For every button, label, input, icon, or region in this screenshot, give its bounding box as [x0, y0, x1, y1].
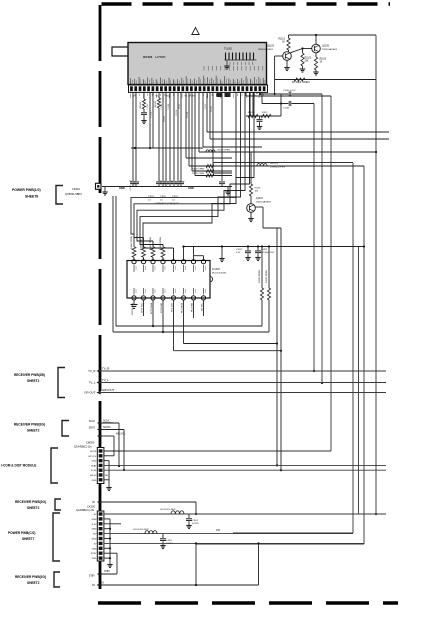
svg-text:R1101: R1101 — [278, 39, 285, 41]
svg-text:STBY: STBY — [89, 575, 96, 578]
svg-text:R1417 OPEN: R1417 OPEN — [150, 236, 152, 250]
svg-text:HP_VOL: HP_VOL — [116, 433, 126, 436]
svg-text:C1105: C1105 — [283, 108, 290, 110]
svg-text:0.01U: 0.01U — [290, 90, 296, 92]
svg-text:R1418 OPEN: R1418 OPEN — [160, 236, 162, 250]
svg-text:SCLK: SCLK — [89, 420, 96, 423]
svg-text:C1102: C1102 — [147, 104, 149, 109]
svg-text:RECEIVER PWB(2B): RECEIVER PWB(2B) — [14, 373, 45, 377]
svg-text:SHEET2: SHEET2 — [27, 379, 40, 383]
svg-text:GRVOUT: GRVOUT — [102, 388, 115, 392]
svg-text:POWER PWB(C/2): POWER PWB(C/2) — [8, 531, 35, 535]
svg-text:GND: GND — [92, 558, 97, 560]
svg-text:6V: 6V — [92, 584, 95, 587]
svg-text:GND: GND — [92, 519, 97, 521]
svg-text:C4: C4 — [179, 181, 181, 183]
svg-text:MC145157DW2: MC145157DW2 — [212, 273, 227, 275]
svg-text:C1413: C1413 — [236, 249, 243, 251]
svg-text:SDAT: SDAT — [89, 427, 96, 430]
svg-text:DO SEL: DO SEL — [202, 302, 204, 311]
svg-text:GND: GND — [92, 539, 97, 541]
svg-text:MTR CLK: MTR CLK — [142, 302, 144, 312]
svg-text:LA75685: LA75685 — [155, 55, 166, 59]
svg-text:R1103: R1103 — [320, 59, 327, 61]
svg-text:QV5031-5BPV: QV5031-5BPV — [65, 192, 82, 196]
svg-text:NE: NE — [105, 475, 109, 477]
svg-text:Q1103: Q1103 — [256, 198, 263, 200]
svg-text:I-COM & DIST MODULE: I-COM & DIST MODULE — [1, 464, 36, 468]
svg-text:SCLK: SCLK — [103, 420, 110, 423]
svg-text:RECEIVER PWB(3G): RECEIVER PWB(3G) — [15, 575, 46, 579]
svg-text:R1124: R1124 — [151, 112, 153, 117]
svg-text:1K: 1K — [320, 62, 323, 64]
svg-text:0.1U: 0.1U — [236, 252, 241, 254]
svg-text:SDAT: SDAT — [91, 464, 97, 467]
svg-text:RECEIVER PWB(3G): RECEIVER PWB(3G) — [14, 423, 45, 427]
svg-text:TV_R: TV_R — [88, 369, 95, 373]
svg-text:9V: 9V — [92, 501, 95, 504]
svg-text:SHEET2: SHEET2 — [27, 581, 40, 585]
svg-text:R1102: R1102 — [305, 58, 312, 60]
svg-text:C1109: C1109 — [168, 104, 170, 109]
svg-text:CM300: CM300 — [86, 441, 95, 445]
svg-text:C4: C4 — [159, 181, 161, 183]
svg-text:GC/L1201-2002: GC/L1201-2002 — [160, 509, 176, 511]
svg-text:GP-OUT: GP-OUT — [84, 390, 95, 394]
svg-text:GND: GND — [92, 480, 97, 482]
svg-text:Q1105: Q1105 — [322, 45, 330, 48]
svg-text:CK901: CK901 — [72, 187, 80, 191]
svg-text:PLL CLK: PLL CLK — [172, 302, 174, 311]
svg-text:R1126: R1126 — [176, 110, 178, 115]
svg-text:SHEET2: SHEET2 — [27, 506, 40, 510]
svg-text:C4: C4 — [170, 181, 172, 183]
svg-text:R1152 OPEN: R1152 OPEN — [266, 269, 268, 283]
svg-text:2N5501A/GR/X: 2N5501A/GR/X — [322, 48, 338, 51]
svg-text:R1119 OPEN: R1119 OPEN — [192, 173, 204, 175]
svg-text:GND: GND — [188, 186, 194, 190]
svg-text:C4: C4 — [129, 181, 131, 183]
svg-text:PLL ENB: PLL ENB — [192, 302, 194, 311]
svg-text:R/STB OPN: R/STB OPN — [132, 303, 134, 315]
svg-text:HP-VOL: HP-VOL — [88, 456, 97, 458]
svg-text:SCLK: SCLK — [91, 470, 97, 472]
svg-text:TV_L: TV_L — [102, 378, 109, 382]
svg-text:QGA45B(C)-15x: QGA45B(C)-15x — [74, 446, 92, 449]
svg-text:SHEET2: SHEET2 — [27, 429, 40, 433]
svg-text:R1125: R1125 — [155, 100, 157, 107]
svg-text:R1150 OPEN: R1150 OPEN — [259, 269, 261, 283]
svg-text:R1129: R1129 — [255, 188, 262, 190]
svg-text:STBY: STBY — [91, 553, 97, 555]
svg-text:A5-3V: A5-3V — [90, 474, 97, 477]
svg-text:S-3V: S-3V — [92, 524, 97, 526]
svg-text:MUTE: MUTE — [90, 451, 97, 453]
svg-text:L1101 OPEN: L1101 OPEN — [217, 150, 230, 152]
svg-text:POWER PWB(1/2): POWER PWB(1/2) — [12, 188, 41, 192]
svg-text:GND: GND — [92, 529, 97, 531]
svg-text:STBY: STBY — [104, 571, 110, 573]
svg-text:R1123: R1123 — [140, 101, 142, 108]
svg-text:MTR ENB: MTR ENB — [161, 302, 163, 312]
svg-text:GC/L1202-2002: GC/L1202-2002 — [133, 529, 149, 531]
svg-text:Q1102: Q1102 — [267, 45, 275, 48]
svg-text:SHEET7: SHEET7 — [22, 537, 35, 541]
svg-text:QTM/162-OPEN: QTM/162-OPEN — [270, 167, 285, 169]
svg-text:0.022U: 0.022U — [192, 523, 199, 525]
svg-text:2N5401A/GR/3: 2N5401A/GR/3 — [258, 48, 274, 51]
svg-text:PLL DATA: PLL DATA — [181, 302, 184, 312]
svg-text:IC1403: IC1403 — [212, 268, 220, 271]
svg-text:6V: 6V — [101, 582, 104, 585]
svg-text:R1117: R1117 — [262, 112, 268, 114]
svg-text:15V: 15V — [93, 534, 97, 536]
svg-text:C1112: C1112 — [205, 104, 207, 109]
svg-text:C1101: C1101 — [130, 184, 132, 191]
svg-text:GND: GND — [92, 461, 97, 463]
svg-text:QGA45B1(C)-15x: QGA45B1(C)-15x — [76, 509, 95, 512]
svg-text:25K: 25K — [305, 61, 310, 63]
svg-text:GND: GND — [119, 186, 125, 190]
svg-text:MTR DATA: MTR DATA — [150, 302, 153, 313]
svg-text:RY-REF OPEN: RY-REF OPEN — [292, 80, 310, 84]
svg-text:R1127: R1127 — [164, 116, 166, 121]
svg-text:R1416 OPEN: R1416 OPEN — [131, 235, 133, 249]
svg-text:15V: 15V — [216, 529, 221, 532]
svg-text:R1120 OPEN: R1120 OPEN — [192, 169, 205, 171]
svg-text:R1116: R1116 — [248, 112, 254, 114]
svg-text:TV_R: TV_R — [102, 367, 109, 371]
svg-text:RECEIVER PWB(3G): RECEIVER PWB(3G) — [15, 500, 46, 504]
svg-text:SHEET8: SHEET8 — [25, 195, 38, 199]
svg-text:CK200: CK200 — [87, 505, 95, 509]
svg-text:R1422 10k: R1422 10k — [141, 239, 143, 250]
svg-text:C1201: C1201 — [192, 520, 199, 522]
svg-text:TV_L: TV_L — [89, 380, 96, 384]
svg-text:L1102 &: L1102 & — [270, 163, 279, 165]
svg-text:TL1(E): TL1(E) — [224, 47, 232, 51]
svg-text:IC1101: IC1101 — [143, 55, 153, 59]
svg-text:C1111: C1111 — [179, 104, 181, 109]
svg-text:C1104: C1104 — [283, 90, 290, 92]
svg-text:NC/100(4-204: NC/100(4-204 — [261, 252, 274, 254]
svg-text:C1106: C1106 — [161, 104, 163, 109]
svg-text:2N5551A/GR/3: 2N5551A/GR/3 — [256, 201, 272, 204]
svg-text:C1202: C1202 — [166, 540, 173, 542]
svg-text:SDATA: SDATA — [103, 426, 111, 429]
svg-text:GND: GND — [92, 548, 97, 550]
svg-text:1K: 1K — [282, 42, 285, 44]
